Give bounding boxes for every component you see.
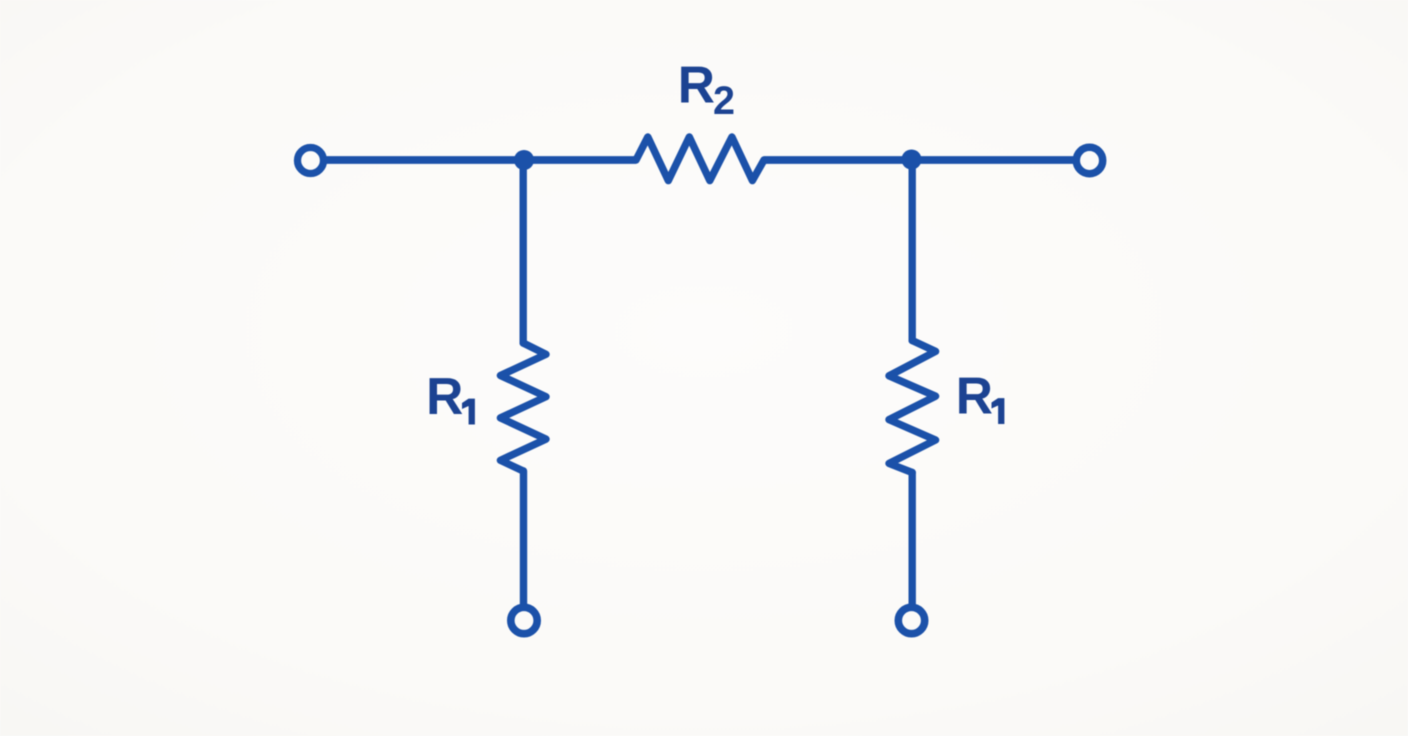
label R1 (left): [426, 367, 475, 425]
svg-text:R: R: [678, 56, 715, 114]
wire (right node down to R1 right): [909, 160, 916, 341]
node (left junction): [514, 150, 534, 170]
label R2: [678, 56, 735, 123]
resistor R1 (right): [889, 341, 936, 473]
svg-text:R: R: [956, 367, 993, 425]
terminal (top-left input): [298, 148, 324, 174]
wire (R1 right to bottom-right terminal): [909, 473, 916, 605]
terminal (bottom-right): [898, 607, 924, 633]
wire (R2 to right node): [765, 156, 912, 164]
label R1 (right): [956, 367, 1005, 425]
resistor R2: [636, 137, 764, 181]
wire (top-left terminal to left node): [327, 156, 524, 164]
terminal (top-right output): [1076, 147, 1102, 173]
wire (right node to top-right terminal): [912, 156, 1074, 164]
svg-text:2: 2: [713, 79, 735, 123]
wire (left node to R2): [524, 156, 635, 164]
wire (R1 left to bottom-left terminal): [520, 471, 527, 604]
svg-text:R: R: [426, 367, 463, 425]
terminal (bottom-left): [511, 607, 537, 633]
node (right junction): [902, 150, 922, 170]
wire (left node down to R1 left): [520, 160, 527, 343]
resistor R1 (left): [500, 343, 546, 471]
